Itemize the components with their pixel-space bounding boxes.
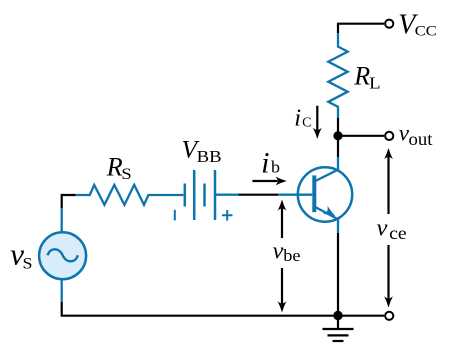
svg-text:vout: vout <box>399 121 433 150</box>
svg-text:ib: ib <box>261 146 280 179</box>
svg-text:VCC: VCC <box>398 10 437 41</box>
svg-text:VBB: VBB <box>182 135 222 166</box>
svg-text:vbe: vbe <box>273 238 301 265</box>
svg-text:vce: vce <box>377 214 407 243</box>
svg-text:RL: RL <box>353 62 380 93</box>
svg-text:RS: RS <box>106 152 132 183</box>
svg-text:iC: iC <box>294 104 311 131</box>
svg-text:vS: vS <box>10 237 32 273</box>
